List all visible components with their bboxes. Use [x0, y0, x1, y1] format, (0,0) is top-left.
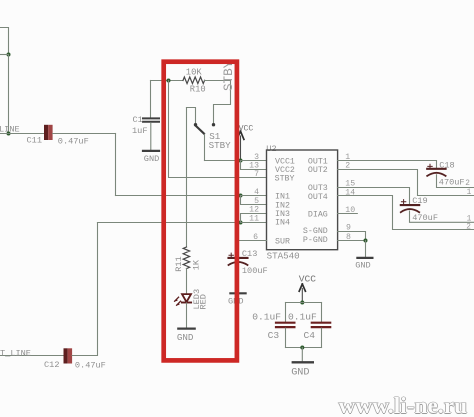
ground GND (decoupling) [293, 361, 313, 363]
svg-text:STBY: STBY [209, 140, 232, 151]
wire OUT_LINE stub bottom-left [0, 355, 64, 357]
svg-text:GND: GND [355, 261, 370, 271]
svg-text:1K: 1K [192, 259, 202, 270]
svg-text:13: 13 [249, 162, 259, 171]
wire OUT1 pin 1 [338, 161, 437, 168]
svg-text:C1: C1 [132, 115, 142, 125]
resistor R10 [183, 77, 205, 84]
svg-text:1: 1 [467, 189, 472, 197]
power VCC (switch) [237, 131, 244, 160]
svg-text:R10: R10 [190, 85, 206, 95]
svg-text:VCC2: VCC2 [275, 166, 295, 175]
svg-text:GND: GND [144, 154, 159, 164]
wire C19 to edge [410, 211, 474, 222]
svg-text:C12: C12 [44, 360, 59, 370]
wire switch left contact riser [187, 108, 196, 123]
wire IN4 row to junction [98, 222, 241, 224]
svg-text:OUT2: OUT2 [308, 166, 328, 175]
capacitor C4 [312, 323, 330, 327]
LED LED3 [174, 294, 191, 306]
svg-text:OUT4: OUT4 [308, 193, 328, 202]
svg-text:11: 11 [249, 214, 259, 223]
IC U2 body [267, 150, 338, 250]
wire S-GND pin 9 [338, 232, 366, 241]
svg-text:470uF: 470uF [412, 213, 438, 223]
switch S1 [194, 123, 215, 134]
wire C3 top lead [285, 303, 287, 322]
svg-text:P-GND: P-GND [303, 236, 328, 245]
wire decoupling bottom rail [286, 347, 322, 349]
svg-text:www.li-ne.ru: www.li-ne.ru [339, 393, 468, 417]
wire up to IN4 row [97, 223, 99, 356]
wire IN1 row to junction [116, 195, 241, 197]
wire C1 bottom lead [150, 123, 152, 150]
svg-text:1uF: 1uF [132, 126, 147, 136]
capacitor C11 [44, 125, 53, 140]
wire to GND (decoupling) [301, 348, 303, 362]
resistor R11 [183, 247, 189, 269]
svg-text:C4: C4 [304, 330, 316, 341]
svg-text:GND: GND [291, 368, 309, 379]
power VCC (decoupling) [299, 284, 305, 303]
svg-text:2: 2 [465, 180, 470, 188]
wire R10 right to switch [205, 81, 231, 123]
wire junction to pin 11 [241, 222, 267, 224]
svg-text:IN3: IN3 [275, 210, 290, 219]
wire C4 top lead [321, 303, 323, 322]
node R10/C1/STBY junction [167, 79, 171, 83]
wire jog to pin 13 [241, 161, 267, 170]
svg-text:C13: C13 [242, 249, 257, 259]
svg-text:0.1uF: 0.1uF [252, 311, 281, 322]
node IN3/IN4 junction [239, 221, 243, 225]
svg-text:VCC: VCC [239, 125, 254, 134]
ground GND (C1) [143, 150, 159, 152]
wire to pin 3 [241, 160, 267, 162]
wire C4 bottom lead [321, 328, 323, 347]
svg-text:IN4: IN4 [275, 219, 290, 228]
svg-text:C11: C11 [27, 136, 42, 146]
wire C3 bottom lead [285, 328, 287, 347]
wire IN_LINE stub top-left [0, 28, 9, 55]
svg-text:100uF: 100uF [242, 266, 268, 276]
wire C1 top lead [150, 81, 152, 118]
svg-text:12: 12 [249, 206, 259, 215]
wire decoupling top rail [286, 302, 322, 304]
wire switch pole down to VCC row [204, 134, 206, 160]
svg-text:STBY: STBY [222, 60, 236, 91]
wire P-GND pin 8 [338, 240, 366, 242]
node decoupling top junction [300, 301, 304, 305]
wire OUT2 pin 2 to edge [338, 170, 474, 196]
capacitor C3 [276, 323, 294, 327]
svg-text:C18: C18 [439, 160, 454, 170]
svg-text:1: 1 [467, 216, 472, 224]
annotation red highlight box [164, 62, 237, 361]
svg-text:OUT3: OUT3 [308, 184, 328, 193]
wire pole row to VCC junction [205, 160, 241, 162]
wire left stub 2 [0, 54, 9, 56]
svg-text:GND: GND [177, 332, 194, 343]
svg-text:IN1: IN1 [275, 193, 290, 202]
node IN1/IN2 junction [239, 194, 243, 198]
wire DIAG pin 10 stub [338, 213, 358, 215]
svg-text:U2: U2 [266, 144, 276, 154]
wire STBY pin7 net [169, 81, 267, 178]
svg-text:C3: C3 [268, 330, 280, 341]
node junction left stub [7, 53, 11, 57]
svg-text:470uF: 470uF [439, 177, 465, 187]
node LINE junction [7, 132, 11, 136]
capacitor C13 [229, 253, 248, 265]
svg-text:2: 2 [466, 224, 471, 232]
svg-text:VCC1: VCC1 [275, 157, 295, 166]
wire down to IN1 row [115, 134, 117, 196]
svg-text:DIAG: DIAG [308, 211, 328, 220]
svg-text:VCC: VCC [299, 274, 317, 285]
svg-text:OUT1: OUT1 [308, 157, 328, 166]
svg-text:0.47uF: 0.47uF [58, 136, 89, 146]
wire LED branch vertical [186, 108, 188, 248]
node S-GND/P-GND junction [364, 239, 368, 243]
svg-text:0.1uF: 0.1uF [288, 311, 317, 322]
capacitor C12 [64, 348, 73, 363]
svg-text:7: 7 [254, 170, 259, 179]
wire R11 to LED [186, 269, 188, 294]
wire jog to pin 5 [241, 196, 267, 205]
svg-text:C19: C19 [412, 196, 427, 206]
wire OUT3 pin 15 [338, 188, 410, 205]
svg-text:S-GND: S-GND [303, 227, 328, 236]
svg-text:RED: RED [198, 294, 208, 309]
ground GND (C13) [230, 292, 245, 294]
ground GND (IC) [357, 257, 372, 259]
node decoupling bottom junction [300, 346, 304, 350]
wire junction to pin 4 [241, 195, 267, 197]
capacitor C19 [401, 200, 419, 213]
svg-text:10K: 10K [186, 68, 203, 78]
svg-text:STBY: STBY [275, 175, 295, 184]
node VCC junction [239, 159, 243, 163]
svg-text:SUR: SUR [275, 237, 290, 246]
wire C18 to edge [437, 175, 474, 188]
svg-text:IN2: IN2 [275, 201, 290, 210]
wire to GND (IC) [365, 241, 367, 257]
wire OUT4 pin 14 to edge [338, 196, 474, 230]
svg-text:STA540: STA540 [267, 250, 300, 261]
svg-text:3: 3 [254, 153, 259, 162]
svg-text:0.47uF: 0.47uF [75, 361, 106, 371]
capacitor C18 [427, 164, 445, 176]
svg-text:5: 5 [254, 197, 259, 206]
ground GND (LED) [178, 328, 194, 330]
wire C12 to corner [72, 355, 97, 357]
capacitor C1 [143, 118, 159, 121]
svg-text:R11: R11 [174, 256, 184, 271]
wire R10 left lead [151, 80, 184, 82]
svg-text:T_LINE: T_LINE [0, 348, 31, 358]
svg-text:4: 4 [254, 188, 259, 197]
wire LINE to C11 [0, 133, 44, 135]
wire C13 to GND [237, 264, 239, 292]
watermark www.li-ne.ru [338, 392, 468, 417]
wire LED to GND [186, 303, 188, 328]
wire SVR pin 6 [238, 241, 267, 257]
wire jog to pin 12 [241, 214, 267, 223]
wire vertical to LINE node [8, 55, 10, 134]
wire C11 to corner [53, 133, 116, 135]
